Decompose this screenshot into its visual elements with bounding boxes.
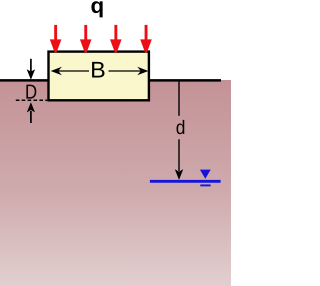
water table triangle symbol	[200, 170, 211, 179]
label D	[26, 85, 36, 99]
node D: up arrow to footing base level	[27, 102, 35, 123]
load q: red arrow 4	[140, 25, 152, 53]
water table line	[150, 180, 221, 183]
load q: red arrow 1	[50, 25, 62, 53]
wire: embedment depth dashed line at footing base	[16, 99, 48, 101]
load q: red arrow 3	[110, 25, 122, 53]
dimension arrow B	[51, 67, 149, 75]
water table underline dash	[200, 184, 210, 186]
label B	[92, 62, 104, 78]
node D: down arrow to ground surface	[27, 59, 35, 80]
label q	[91, 1, 102, 17]
ground surface line	[0, 79, 221, 82]
footing B	[49, 52, 149, 101]
load q: red arrow 2	[80, 25, 92, 53]
label d	[177, 120, 185, 134]
soil mass	[0, 80, 231, 286]
node d: depth line upper segment	[178, 82, 180, 116]
node d: depth line lower segment with arrow	[175, 139, 183, 180]
